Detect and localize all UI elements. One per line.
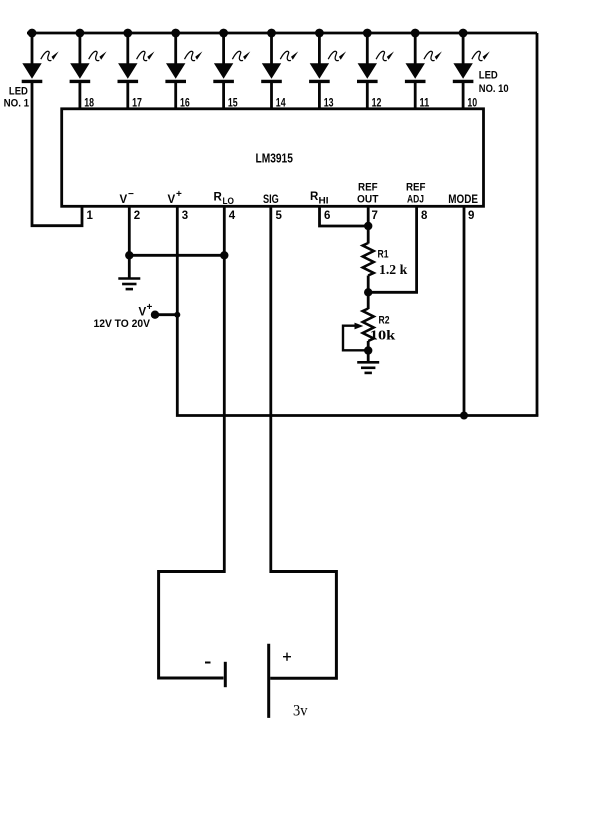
wire: pin 2 V- down to ground node xyxy=(128,207,131,256)
svg-text:5: 5 xyxy=(276,210,283,222)
svg-text:LM3915: LM3915 xyxy=(256,152,293,166)
svg-text:LED: LED xyxy=(9,85,28,97)
node: junction on pin 3 wire xyxy=(174,312,180,318)
svg-text:6: 6 xyxy=(324,210,330,222)
svg-text:1.2 k: 1.2 k xyxy=(379,263,407,278)
ground symbol at pin 2 xyxy=(118,279,140,290)
svg-text:−: − xyxy=(128,189,134,200)
svg-text:R1: R1 xyxy=(378,249,389,261)
wire: pin2 dot to ground xyxy=(128,255,131,278)
wire: LED8 cathode to pin 12 xyxy=(366,81,369,109)
battery BT1 right branch (positive) xyxy=(270,572,336,679)
svg-text:V: V xyxy=(139,307,147,319)
node: junction dot pin 9 on rail xyxy=(460,412,468,420)
svg-text:V: V xyxy=(120,194,128,206)
wire: right side bus down from top bus xyxy=(536,33,539,416)
svg-text:13: 13 xyxy=(324,97,334,109)
svg-text:10k: 10k xyxy=(370,329,396,344)
LED D2 xyxy=(70,29,107,82)
wire: node down to R2 xyxy=(367,292,370,309)
potentiometer R2 10k zigzag xyxy=(363,309,374,342)
LED D8 xyxy=(357,29,394,82)
svg-text:REF: REF xyxy=(358,182,378,194)
wire: LED1 cathode down-left to pin 1 xyxy=(32,81,82,226)
wire: R2 bottom to ground xyxy=(367,341,370,362)
wire: node to pin 8 REF ADJ xyxy=(368,207,416,293)
LED No. 1 (D1) xyxy=(22,29,59,82)
svg-text:18: 18 xyxy=(84,97,94,109)
svg-text:12V TO 20V: 12V TO 20V xyxy=(94,318,151,330)
svg-text:NO. 10: NO. 10 xyxy=(479,83,509,95)
svg-text:+: + xyxy=(176,189,182,200)
node: junction dot below R1 xyxy=(364,288,372,296)
battery negative plate xyxy=(224,662,227,687)
svg-text:LED: LED xyxy=(479,70,498,82)
node: junction dot pin2 xyxy=(125,251,133,259)
svg-text:REF: REF xyxy=(406,182,426,194)
svg-text:SIG: SIG xyxy=(263,194,279,206)
svg-text:8: 8 xyxy=(421,210,428,222)
svg-text:14: 14 xyxy=(276,97,286,109)
svg-text:3: 3 xyxy=(182,210,188,222)
svg-text:2: 2 xyxy=(134,210,140,222)
node: junction dot at R2 bottom xyxy=(364,346,372,354)
svg-text:ADJ: ADJ xyxy=(407,194,424,206)
wire: pin 3 V+ already drawn with rail; wire pin 4 R_LO down to battery xyxy=(223,207,226,574)
wire: V+ terminal stub to pin 3 wire xyxy=(155,313,177,316)
LED D3 xyxy=(118,29,155,82)
battery positive plate xyxy=(267,644,270,718)
svg-text:16: 16 xyxy=(180,97,190,109)
wire: pin 7 REF OUT down to R1 xyxy=(367,207,370,244)
wire: LED6 cathode to pin 14 xyxy=(270,81,273,109)
svg-text:1: 1 xyxy=(87,210,94,222)
LED D5 xyxy=(213,29,250,82)
node: junction dot on pin 4 wire xyxy=(220,251,228,259)
wire: LED4 cathode to pin 16 xyxy=(174,81,177,109)
svg-text:+: + xyxy=(147,302,153,313)
LED D4 xyxy=(165,29,202,82)
label LED NO. 10 xyxy=(479,70,509,96)
label LED NO. 1 xyxy=(4,85,30,109)
svg-text:R: R xyxy=(214,192,223,204)
svg-text:OUT: OUT xyxy=(357,194,379,206)
svg-text:17: 17 xyxy=(132,97,142,109)
wire: LED10 cathode to pin 10 xyxy=(462,81,465,109)
label battery minus xyxy=(205,662,211,664)
node: junction dot pin 7 xyxy=(364,222,372,230)
wire: LED7 cathode to pin 13 xyxy=(318,81,321,109)
wire: pin 5 SIG down to battery xyxy=(269,207,272,574)
LED D6 xyxy=(261,29,298,82)
wire: pin 9 MODE down to bottom rail xyxy=(463,207,466,416)
wire: bottom rail from pin3 V+ to right bus xyxy=(177,207,538,416)
svg-text:9: 9 xyxy=(468,210,474,222)
wire: LED3 cathode to pin 17 xyxy=(126,81,129,109)
svg-text:MODE: MODE xyxy=(448,194,478,206)
svg-text:LO: LO xyxy=(223,196,235,206)
wire: top anode bus xyxy=(27,32,537,35)
svg-text:NO. 1: NO. 1 xyxy=(4,98,30,110)
svg-text:7: 7 xyxy=(372,210,378,222)
svg-text:3v: 3v xyxy=(293,703,308,720)
wire: R1 bottom to node xyxy=(367,276,370,293)
LED No. 10 (D10) xyxy=(453,29,490,82)
wire: LED2 cathode to pin 18 xyxy=(79,81,82,109)
svg-text:4: 4 xyxy=(229,210,236,222)
resistor R1 1.2k zigzag xyxy=(363,243,374,276)
label battery plus xyxy=(283,653,291,661)
wire: LED9 cathode to pin 11 xyxy=(414,81,417,109)
svg-text:HI: HI xyxy=(319,196,329,206)
battery BT1 left branch (negative) xyxy=(159,572,337,718)
ground symbol below R2 xyxy=(357,362,379,373)
op-amp IC U1 LM3915 box xyxy=(62,109,484,207)
LED D7 xyxy=(309,29,346,82)
LED D9 xyxy=(405,29,442,82)
svg-text:10: 10 xyxy=(467,97,477,109)
svg-text:15: 15 xyxy=(228,97,238,109)
R2 wiper arrow and rheostat connection xyxy=(343,326,368,351)
wire: V- to R_LO (pin 4) xyxy=(129,254,224,257)
svg-text:V: V xyxy=(168,194,176,206)
wire: pin 6 R_HI to pin 7 xyxy=(320,207,369,227)
V+ supply terminal xyxy=(151,311,159,319)
svg-text:12: 12 xyxy=(372,97,382,109)
svg-text:11: 11 xyxy=(420,97,430,109)
wire: LED5 cathode to pin 15 xyxy=(222,81,225,109)
svg-text:R2: R2 xyxy=(379,315,390,327)
